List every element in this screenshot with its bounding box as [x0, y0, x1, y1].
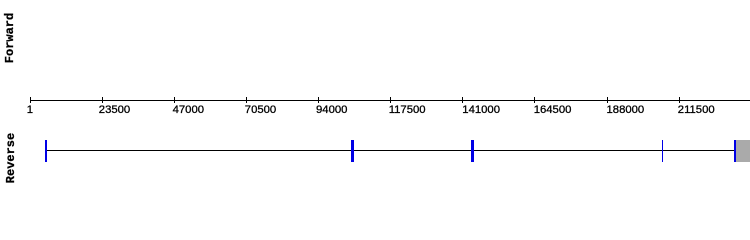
axis tick at 188000 — [607, 97, 608, 103]
axis tick label "94000" — [316, 105, 347, 116]
axis tick at 47000 — [174, 97, 175, 103]
axis tick at 141000 — [462, 97, 463, 103]
axis tick at 1 — [30, 97, 31, 103]
axis main line — [30, 100, 750, 101]
reverse strand label "Reverse" — [4, 133, 18, 183]
axis tick label "23500" — [99, 105, 130, 116]
axis tick label "70500" — [245, 105, 276, 116]
axis tick at 117500 — [390, 97, 391, 103]
reverse site marker 5 — [734, 140, 736, 162]
reverse feature box (gray) — [736, 140, 750, 162]
axis tick at 70500 — [246, 97, 247, 103]
axis tick at 211500 — [679, 97, 680, 103]
axis tick at 94000 — [318, 97, 319, 103]
reverse site marker 4 — [662, 140, 663, 162]
axis tick label "1" — [27, 105, 33, 116]
axis tick at 164500 — [534, 97, 535, 103]
reverse strand line — [45, 150, 736, 151]
axis tick at 23500 — [102, 97, 103, 103]
axis tick label "141000" — [462, 105, 500, 116]
axis tick label "47000" — [173, 105, 204, 116]
axis tick label "188000" — [607, 105, 645, 116]
axis tick label "164500" — [534, 105, 572, 116]
forward strand label "Forward" — [3, 12, 17, 62]
reverse site marker 2 — [351, 140, 354, 162]
reverse site marker 3 — [471, 140, 474, 162]
axis tick label "117500" — [389, 105, 426, 116]
reverse site marker 1 — [45, 140, 47, 162]
axis tick label "211500" — [678, 105, 715, 116]
